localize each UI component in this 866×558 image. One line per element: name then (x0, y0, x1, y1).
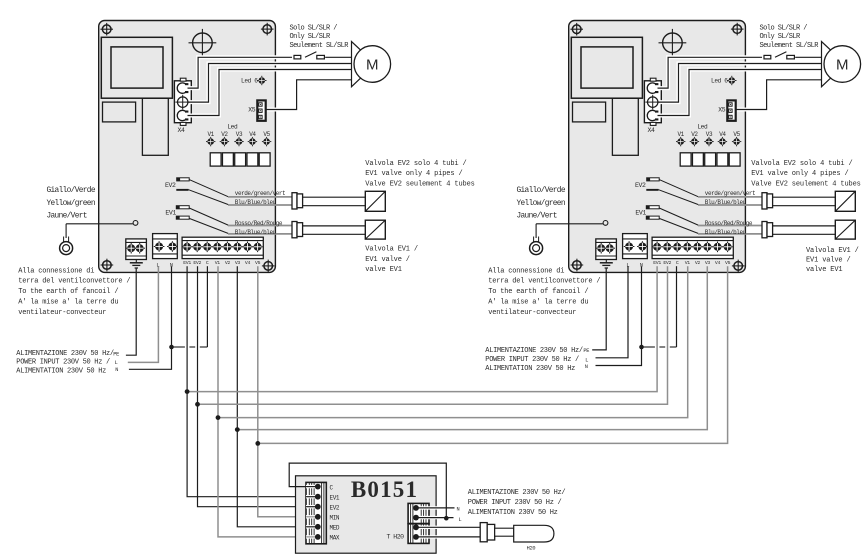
svg-text:PE: PE (113, 351, 119, 357)
svg-text:EV1 valve /: EV1 valve / (806, 256, 851, 264)
svg-text:T H20: T H20 (387, 533, 405, 540)
svg-text:Valvola EV2 solo 4 tubi /: Valvola EV2 solo 4 tubi / (365, 160, 466, 168)
svg-text:L: L (115, 360, 118, 366)
svg-text:EV2: EV2 (330, 504, 340, 511)
svg-text:PE: PE (583, 348, 589, 354)
svg-text:ALIMENTAZIONE 230V 50 Hz/: ALIMENTAZIONE 230V 50 Hz/ (16, 350, 114, 358)
svg-text:L: L (459, 517, 462, 523)
svg-text:Valve EV2 seulement 4 tubes: Valve EV2 seulement 4 tubes (365, 180, 474, 188)
svg-text:B0151: B0151 (351, 477, 418, 502)
svg-text:POWER INPUT 230V 50 Hz /: POWER INPUT 230V 50 Hz / (16, 359, 110, 367)
svg-text:Valvola EV2 solo 4 tubi /: Valvola EV2 solo 4 tubi / (751, 160, 852, 168)
svg-text:N: N (585, 364, 588, 370)
svg-text:valve EV1: valve EV1 (806, 266, 842, 274)
svg-text:N: N (457, 507, 460, 513)
svg-text:EV1 valve only 4 pipes /: EV1 valve only 4 pipes / (751, 170, 848, 178)
svg-text:N: N (115, 367, 118, 373)
svg-text:POWER INPUT 230V 50 Hz /: POWER INPUT 230V 50 Hz / (485, 356, 579, 364)
svg-text:EV1: EV1 (330, 494, 340, 501)
svg-text:ALIMENTAZIONE 230V 50 Hz/: ALIMENTAZIONE 230V 50 Hz/ (468, 489, 566, 497)
svg-text:EV1 valve /: EV1 valve / (365, 256, 410, 264)
svg-text:MED: MED (330, 525, 340, 532)
svg-text:H20: H20 (527, 546, 536, 552)
svg-text:ALIMENTATION 230V 50 Hz: ALIMENTATION 230V 50 Hz (16, 367, 106, 375)
svg-text:EV1 valve only 4 pipes /: EV1 valve only 4 pipes / (365, 170, 462, 178)
svg-text:MAX: MAX (330, 535, 340, 542)
svg-text:ALIMENTATION 230V 50 Hz: ALIMENTATION 230V 50 Hz (485, 365, 575, 373)
svg-text:Valvola EV1 /: Valvola EV1 / (365, 246, 418, 254)
svg-text:valve EV1: valve EV1 (365, 266, 401, 274)
svg-text:L: L (585, 357, 588, 363)
svg-text:Valve EV2 seulement 4 tubes: Valve EV2 seulement 4 tubes (751, 180, 860, 188)
svg-text:Valvola EV1 /: Valvola EV1 / (806, 247, 859, 255)
svg-text:ALIMENTAZIONE 230V 50 Hz/: ALIMENTAZIONE 230V 50 Hz/ (485, 347, 583, 355)
svg-text:MIN: MIN (330, 515, 340, 522)
svg-text:POWER INPUT 230V 50 Hz /: POWER INPUT 230V 50 Hz / (468, 499, 562, 507)
svg-text:ALIMENTATION 230V 50 Hz: ALIMENTATION 230V 50 Hz (468, 509, 558, 517)
